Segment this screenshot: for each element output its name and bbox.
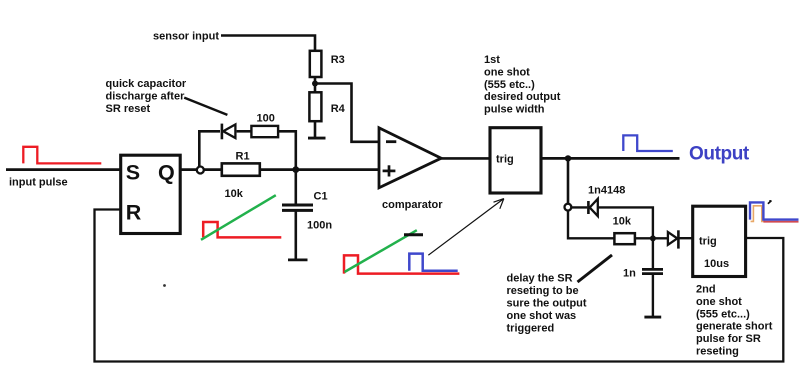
svg-text:10k: 10k [613,216,632,228]
waveform 2 black tick [404,233,423,236]
waveform near one-shot2 red underline [763,221,798,223]
one-shot 1 (555) box [490,128,541,193]
svg-text:Q: Q [158,160,175,184]
one-shot 2 (555) box [693,206,746,276]
ground under R4 [308,137,326,140]
svg-text:R4: R4 [331,103,346,115]
svg-text:C1: C1 [314,191,328,203]
svg-text:generate short: generate short [696,321,773,333]
svg-text:2nd: 2nd [696,284,716,296]
comparator U2 triangle [379,128,441,188]
wire R3 to R4 [314,77,317,93]
resistor R1 [222,163,260,175]
capacitor C1 [282,204,313,207]
thin arrow to one-shot1 [428,199,504,256]
svg-text:R3: R3 [331,54,345,66]
svg-text:1n: 1n [623,268,636,280]
svg-text:100n: 100n [307,220,332,232]
wire node to comparator minus input [315,84,378,142]
wire junction to C1 [294,170,297,204]
svg-text:(555 etc...): (555 etc...) [696,308,750,320]
wire 100 to junction [278,131,296,169]
svg-text:pulse for SR: pulse for SR [696,333,761,345]
wire diode right and down [598,207,653,238]
ground under 1n [644,316,661,319]
svg-text:S: S [126,160,140,184]
svg-text:R: R [126,201,142,225]
svg-text:triggered: triggered [507,323,555,335]
wire output line [541,157,680,160]
red input pulse waveform [23,147,101,164]
capacitor 1n [642,268,663,271]
node R3/R4 junction [312,81,318,87]
wire C1 to ground [294,212,297,260]
svg-text:Output: Output [689,144,750,165]
waveform 2 red step [344,255,459,273]
wire diode to one-shot 2 [678,237,692,239]
diode 1n4148 (cathode left) [587,201,590,214]
waveform 2 blue pulse [409,254,457,271]
wire feedback one-shot2 to R [95,210,784,362]
wire comparator output [441,157,490,160]
waveform ramp 1 green ramp [201,195,276,240]
wire R4 to ground [314,121,317,137]
svg-text:sensor input: sensor input [153,31,219,43]
resistor 10k delay [614,233,635,244]
comparator minus input sign [386,140,396,143]
waveform near one-shot2 blue pulse [750,202,799,219]
svg-text:one shot: one shot [696,296,742,308]
svg-text:one shot: one shot [484,66,530,78]
waveform 2 green ramp [345,230,417,272]
svg-text:SR reset: SR reset [106,103,151,115]
svg-text:1n4148: 1n4148 [588,185,625,197]
wire node to diode [571,206,587,208]
svg-text:comparator: comparator [382,199,443,211]
SR latch U1 [121,155,181,233]
svg-text:10k: 10k [225,188,244,200]
node open circle [565,204,572,211]
node Q output (open) [197,167,204,174]
waveform ramp 1 red step [203,222,281,237]
svg-text:trig: trig [699,236,717,248]
waveform near one-shot2 black tick [768,201,772,204]
pointer line quick discharge [184,98,227,115]
svg-text:one shot was: one shot was [507,310,577,322]
svg-text:reseting: reseting [696,346,739,358]
blue output pulse waveform [623,135,673,151]
svg-text:R1: R1 [236,151,250,163]
wire junction down to 1n [652,238,654,268]
stray dot [163,284,166,287]
ground under C1 [288,258,308,261]
svg-text:10us: 10us [704,258,729,270]
svg-text:1st: 1st [484,54,500,66]
svg-text:pulse width: pulse width [484,104,545,116]
svg-text:trig: trig [496,154,514,166]
pointer line delay [578,255,613,282]
wire sensor input to R3 [221,36,315,53]
svg-text:delay the SR: delay the SR [507,273,573,285]
junction dot output [565,155,571,161]
svg-text:reseting to be: reseting to be [507,285,579,297]
comparator plus input sign [383,170,396,173]
junction dot delay [650,235,656,241]
resistor R4 [309,92,321,121]
wire Q output main line [180,168,379,171]
wire input to S [6,168,120,171]
wire to discharge diode branch [199,131,220,169]
wire diode to 100 [237,130,252,133]
svg-text:(555 etc..): (555 etc..) [484,79,535,91]
diode D3 (cathode right) [668,232,677,245]
diode D1 discharge (cathode left) [221,124,224,140]
svg-text:discharge after: discharge after [106,90,186,102]
resistor 100 ohm [251,126,278,137]
svg-text:sure the output: sure the output [507,298,587,310]
resistor R3 [310,51,322,77]
waveform near one-shot2 orange pulse [751,206,766,222]
svg-text:100: 100 [257,113,275,125]
junction dot main line [292,166,299,173]
wire node down and right to 10k [568,211,614,239]
wire 1n to ground [652,275,654,316]
svg-text:quick capacitor: quick capacitor [106,78,187,90]
svg-text:desired output: desired output [484,91,561,103]
wire junction down to node [567,158,570,203]
svg-text:input pulse: input pulse [9,177,68,189]
wire 10k to junction [635,237,668,239]
